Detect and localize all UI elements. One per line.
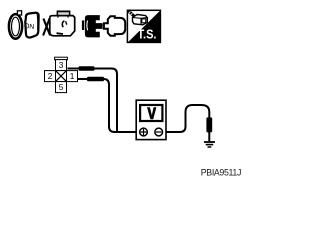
svg-text:ON: ON xyxy=(24,23,35,31)
svg-text:3: 3 xyxy=(59,60,64,70)
svg-text:PBIA9511J: PBIA9511J xyxy=(201,168,241,178)
svg-text:2: 2 xyxy=(48,71,53,81)
svg-text:5: 5 xyxy=(59,82,64,92)
svg-text:1: 1 xyxy=(70,71,75,81)
svg-text:T.S.: T.S. xyxy=(138,27,157,42)
